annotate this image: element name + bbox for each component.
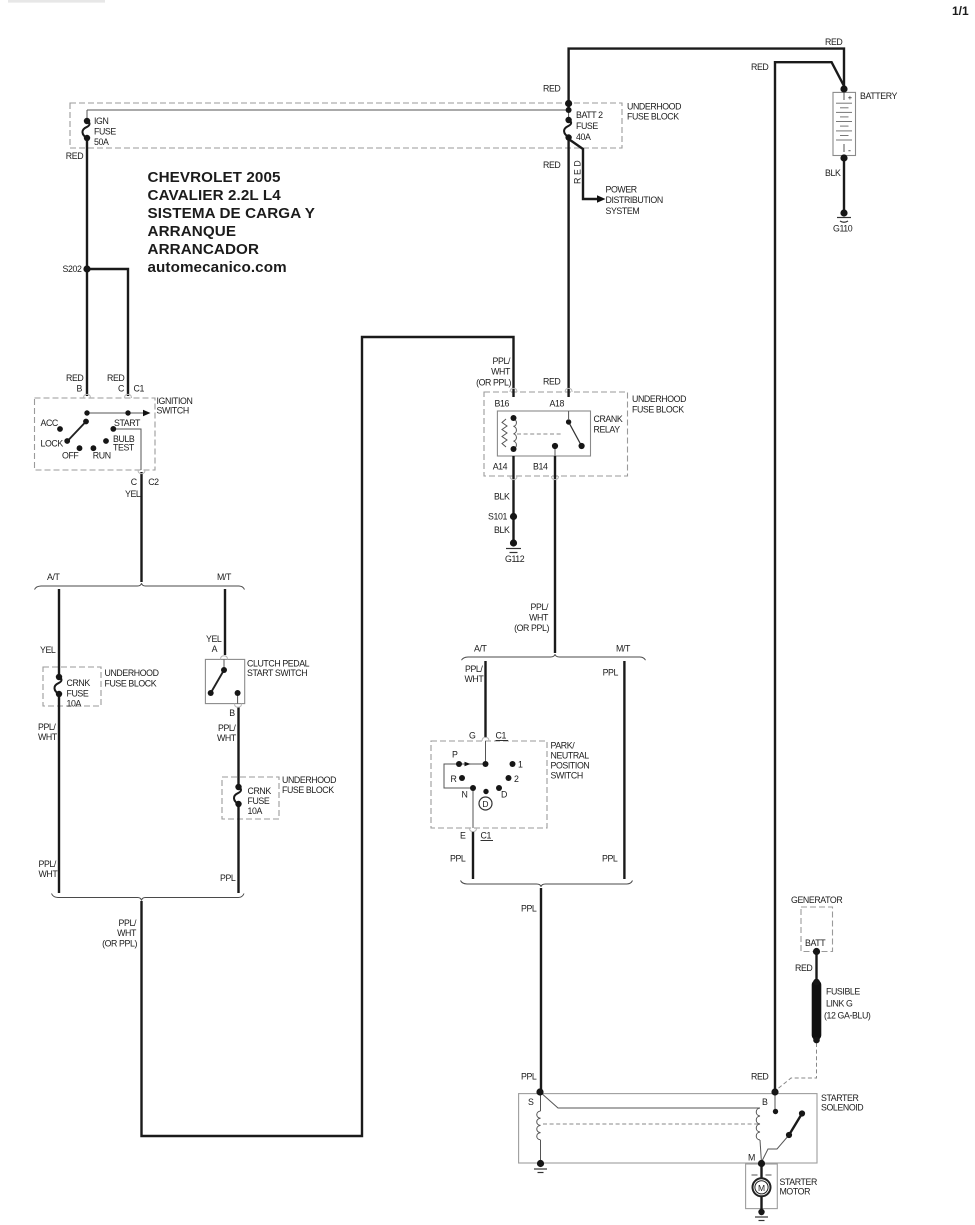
svg-text:A18: A18 — [550, 399, 565, 409]
svg-text:A/T: A/T — [474, 644, 488, 654]
svg-text:PPL/: PPL/ — [218, 723, 236, 733]
svg-text:B: B — [77, 384, 83, 394]
svg-text:FUSE BLOCK: FUSE BLOCK — [627, 112, 679, 122]
svg-text:1/1: 1/1 — [952, 4, 969, 18]
svg-text:YEL: YEL — [206, 634, 222, 644]
svg-text:STARTER: STARTER — [821, 1093, 858, 1103]
svg-text:(OR PPL): (OR PPL) — [476, 378, 511, 388]
svg-text:RED: RED — [543, 160, 560, 170]
svg-text:UNDERHOOD: UNDERHOOD — [105, 668, 159, 678]
svg-text:WHT: WHT — [491, 367, 511, 377]
svg-text:BLK: BLK — [494, 492, 510, 502]
svg-text:M/T: M/T — [616, 644, 631, 654]
svg-text:SISTEMA DE CARGA Y: SISTEMA DE CARGA Y — [148, 205, 315, 222]
svg-text:SWITCH: SWITCH — [157, 406, 189, 416]
svg-text:GENERATOR: GENERATOR — [791, 895, 842, 905]
svg-text:P: P — [452, 750, 458, 760]
svg-text:C: C — [131, 477, 138, 487]
svg-text:CRNK: CRNK — [248, 786, 272, 796]
svg-text:PPL/: PPL/ — [119, 918, 137, 928]
svg-text:CHEVROLET 2005: CHEVROLET 2005 — [148, 169, 282, 186]
svg-text:PPL: PPL — [220, 873, 236, 883]
svg-text:PPL: PPL — [602, 854, 618, 864]
svg-text:SWITCH: SWITCH — [551, 771, 583, 781]
svg-text:1: 1 — [518, 760, 523, 770]
svg-text:YEL: YEL — [40, 645, 56, 655]
svg-text:FUSE: FUSE — [248, 796, 270, 806]
svg-text:FUSE: FUSE — [94, 127, 116, 137]
svg-text:CRNK: CRNK — [67, 678, 91, 688]
svg-text:B14: B14 — [533, 461, 548, 471]
svg-text:START SWITCH: START SWITCH — [247, 668, 307, 678]
svg-text:PPL/: PPL/ — [493, 356, 511, 366]
svg-text:UNDERHOOD: UNDERHOOD — [627, 102, 681, 112]
svg-text:ARRANQUE: ARRANQUE — [148, 223, 237, 240]
svg-text:FUSE: FUSE — [576, 121, 598, 131]
svg-text:-: - — [848, 146, 851, 156]
svg-text:G: G — [469, 731, 476, 741]
svg-text:FUSE BLOCK: FUSE BLOCK — [105, 679, 157, 689]
svg-text:C2: C2 — [148, 477, 159, 487]
svg-text:10A: 10A — [67, 699, 82, 709]
svg-text:POWER: POWER — [606, 185, 637, 195]
svg-text:BATT 2: BATT 2 — [576, 110, 603, 120]
svg-text:WHT: WHT — [117, 928, 137, 938]
svg-text:FUSIBLE: FUSIBLE — [826, 987, 860, 997]
svg-text:B16: B16 — [495, 399, 510, 409]
svg-text:WHT: WHT — [39, 869, 59, 879]
svg-text:FUSE BLOCK: FUSE BLOCK — [632, 405, 684, 415]
svg-text:IGN: IGN — [94, 116, 108, 126]
svg-text:MOTOR: MOTOR — [780, 1187, 811, 1197]
svg-text:PARK/: PARK/ — [551, 741, 576, 751]
svg-text:BATT: BATT — [805, 938, 826, 948]
svg-text:PPL: PPL — [603, 668, 619, 678]
svg-text:BLK: BLK — [494, 525, 510, 535]
svg-text:40A: 40A — [576, 132, 591, 142]
svg-text:RED: RED — [66, 373, 83, 383]
svg-text:A/T: A/T — [47, 572, 61, 582]
svg-text:D: D — [482, 799, 488, 809]
svg-text:UNDERHOOD: UNDERHOOD — [632, 394, 686, 404]
svg-text:CLUTCH PEDAL: CLUTCH PEDAL — [247, 659, 310, 669]
svg-text:WHT: WHT — [217, 733, 237, 743]
svg-text:E: E — [460, 831, 466, 841]
svg-text:M: M — [758, 1183, 765, 1193]
svg-text:PPL/: PPL/ — [38, 722, 56, 732]
svg-text:START: START — [114, 418, 141, 428]
svg-text:LOCK: LOCK — [41, 439, 64, 449]
svg-text:PPL: PPL — [521, 1072, 537, 1082]
svg-text:D: D — [501, 790, 507, 800]
svg-text:TEST: TEST — [113, 443, 135, 453]
svg-text:(12 GA-BLU): (12 GA-BLU) — [824, 1011, 871, 1021]
svg-text:(OR PPL): (OR PPL) — [514, 623, 549, 633]
svg-text:M: M — [748, 1153, 755, 1163]
svg-text:RED: RED — [107, 373, 124, 383]
svg-text:B: B — [762, 1097, 768, 1107]
svg-text:UNDERHOOD: UNDERHOOD — [282, 775, 336, 785]
svg-text:POSITION: POSITION — [551, 761, 590, 771]
svg-text:LINK G: LINK G — [826, 999, 853, 1009]
svg-text:WHT: WHT — [38, 732, 58, 742]
svg-text:DISTRIBUTION: DISTRIBUTION — [606, 195, 663, 205]
svg-text:WHT: WHT — [465, 674, 485, 684]
svg-text:PPL/: PPL/ — [465, 664, 483, 674]
svg-text:CRANK: CRANK — [594, 414, 623, 424]
svg-text:50A: 50A — [94, 137, 109, 147]
svg-text:N: N — [462, 790, 468, 800]
svg-text:G110: G110 — [833, 224, 853, 234]
svg-text:IGNITION: IGNITION — [157, 396, 193, 406]
svg-text:A14: A14 — [493, 461, 508, 471]
svg-text:RED: RED — [573, 158, 583, 184]
svg-text:PPL: PPL — [450, 854, 466, 864]
svg-text:+: + — [848, 93, 853, 102]
svg-text:FUSE: FUSE — [67, 689, 89, 699]
svg-text:2: 2 — [514, 774, 519, 784]
svg-text:ACC: ACC — [41, 418, 59, 428]
svg-text:RED: RED — [66, 151, 83, 161]
svg-text:PPL/: PPL/ — [39, 859, 57, 869]
svg-text:YEL: YEL — [125, 489, 141, 499]
svg-text:BATTERY: BATTERY — [860, 91, 897, 101]
svg-text:RED: RED — [543, 84, 560, 94]
svg-text:PPL/: PPL/ — [531, 602, 549, 612]
svg-text:BLK: BLK — [825, 168, 841, 178]
svg-text:RED: RED — [751, 1072, 768, 1082]
svg-text:S202: S202 — [63, 264, 82, 274]
svg-text:R: R — [451, 774, 457, 784]
svg-text:C: C — [118, 384, 125, 394]
svg-text:RED: RED — [751, 62, 768, 72]
svg-text:FUSE BLOCK: FUSE BLOCK — [282, 785, 334, 795]
svg-text:CAVALIER 2.2L L4: CAVALIER 2.2L L4 — [148, 187, 282, 204]
svg-text:RED: RED — [825, 37, 842, 47]
svg-text:SOLENOID: SOLENOID — [821, 1103, 863, 1113]
svg-text:PPL: PPL — [521, 904, 537, 914]
svg-text:S101: S101 — [488, 512, 507, 522]
svg-text:B: B — [229, 708, 235, 718]
svg-text:SYSTEM: SYSTEM — [606, 206, 640, 216]
svg-text:RED: RED — [543, 377, 560, 387]
svg-text:M/T: M/T — [217, 572, 232, 582]
svg-text:RUN: RUN — [93, 451, 111, 461]
svg-text:(OR PPL): (OR PPL) — [102, 939, 137, 949]
svg-text:OFF: OFF — [62, 451, 79, 461]
svg-text:RELAY: RELAY — [594, 425, 621, 435]
svg-text:STARTER: STARTER — [780, 1177, 817, 1187]
svg-text:NEUTRAL: NEUTRAL — [551, 751, 590, 761]
svg-text:A: A — [212, 644, 218, 654]
svg-text:C1: C1 — [134, 384, 145, 394]
svg-text:WHT: WHT — [529, 613, 549, 623]
svg-text:automecanico.com: automecanico.com — [148, 259, 287, 276]
svg-text:C1: C1 — [481, 831, 492, 841]
svg-text:RED: RED — [795, 963, 812, 973]
svg-text:S: S — [528, 1097, 534, 1107]
svg-text:ARRANCADOR: ARRANCADOR — [148, 241, 260, 258]
svg-text:C1: C1 — [496, 731, 507, 741]
svg-text:G112: G112 — [505, 554, 525, 564]
svg-text:10A: 10A — [248, 806, 263, 816]
